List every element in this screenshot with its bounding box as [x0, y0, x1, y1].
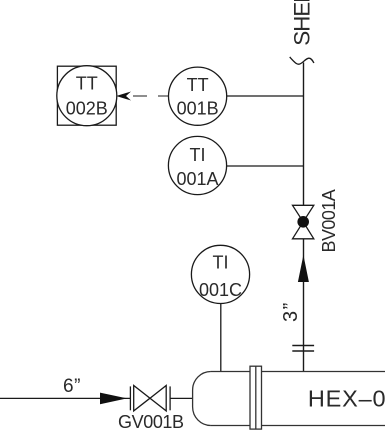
svg-text:TI: TI	[190, 145, 206, 165]
svg-text:TI: TI	[213, 253, 229, 273]
wire: pipe valve to vessel	[170, 397, 193, 399]
wire: signal line TT001B to pipe	[227, 95, 304, 97]
svg-text:6”: 6”	[63, 376, 81, 397]
svg-text:001A: 001A	[176, 169, 218, 189]
flow arrow right on inlet pipe	[100, 393, 127, 405]
wire: vertical pipe upper segment (squiggle to valve top)	[303, 63, 305, 206]
svg-text:3”: 3”	[280, 301, 302, 322]
svg-text:GV001B: GV001B	[118, 412, 184, 432]
svg-text:HEX–001: HEX–001	[308, 385, 385, 411]
svg-text:TT: TT	[76, 73, 98, 93]
wire: signal line TI001A to pipe	[227, 165, 304, 167]
svg-text:001C: 001C	[199, 280, 242, 300]
svg-text:BV001A: BV001A	[319, 189, 339, 252]
wire: TI001C stem to vessel	[220, 304, 222, 372]
svg-text:002B: 002B	[66, 99, 108, 119]
vessel HEX shell	[193, 372, 385, 426]
instrument TI 001A	[168, 136, 226, 194]
gate valve GV001B body	[130, 386, 170, 411]
flow arrow up on pipe	[298, 255, 309, 282]
instrument TT 001B	[169, 67, 227, 125]
wire: dashed signal line TT001B to TT002B	[133, 95, 169, 97]
arrowhead into TT002B	[116, 92, 131, 101]
off-page connector squiggle	[290, 57, 314, 64]
instrument TT 002B (shared display: circle in square)	[57, 66, 117, 126]
instrument TI 001C	[191, 245, 249, 303]
wire: vertical pipe lower segment (valve bottom to vessel)	[303, 239, 305, 372]
wire: 6 inch inlet pipe	[0, 397, 130, 399]
vessel tubesheet/flange divider	[250, 366, 262, 429]
svg-text:001B: 001B	[177, 99, 219, 119]
svg-text:SHELL: SHELL	[290, 0, 315, 46]
ball valve BV001A body	[293, 205, 314, 239]
flange pair on pipe	[292, 346, 314, 352]
svg-text:TT: TT	[187, 75, 209, 95]
